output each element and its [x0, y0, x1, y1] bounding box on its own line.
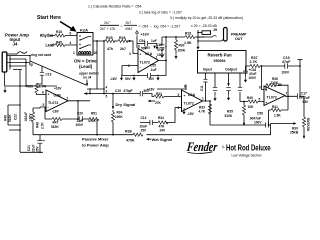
- potentiometer R39 25KB REVERB: [302, 117, 305, 127]
- svg-text:R35: R35: [227, 110, 233, 114]
- resistor R35 510K vertical with ground arrow: [243, 102, 245, 106]
- mixer chain R47 C20 R51: [45, 107, 97, 135]
- wire U1A feedback loop: [122, 37, 166, 76]
- wire wet signal run: [147, 124, 271, 135]
- svg-text:100K: 100K: [115, 115, 123, 119]
- svg-text:to Power Amp: to Power Amp: [82, 143, 109, 148]
- ground C54: [155, 44, 158, 50]
- svg-text:2.) take log of ratio = -1.267: 2.) take log of ratio = -1.267: [139, 11, 182, 15]
- wire K2A output: [93, 41, 138, 54]
- svg-text:Input: Input: [203, 68, 213, 72]
- capacitor C13 47uF 100V: [161, 37, 163, 52]
- wire pan shield riser 2: [239, 73, 241, 102]
- svg-text:510K: 510K: [225, 114, 233, 118]
- jack J4 tip hook: [7, 52, 27, 55]
- power +16V U1A: [136, 31, 139, 37]
- svg-text:100K: 100K: [178, 49, 186, 53]
- capacitor C17 47uF 63V: [297, 94, 300, 100]
- svg-text:100V: 100V: [76, 123, 84, 127]
- svg-text:2.7K: 2.7K: [250, 60, 258, 64]
- svg-text:510K: 510K: [8, 114, 12, 122]
- svg-text:8: 8: [138, 45, 140, 49]
- svg-text:U2B: U2B: [275, 83, 283, 87]
- svg-text:ring not used: ring not used: [31, 53, 51, 57]
- wire reverb return top: [246, 65, 301, 67]
- svg-text:+: +: [140, 53, 142, 57]
- svg-text:Dry Signal: Dry Signal: [116, 102, 136, 107]
- wire C56 bus: [210, 124, 271, 126]
- op-amp U1B: [46, 90, 68, 112]
- svg-text:C22: C22: [14, 114, 18, 120]
- svg-text:+16V: +16V: [54, 87, 62, 91]
- svg-text:7: 7: [286, 91, 288, 95]
- svg-text:Wet Signal: Wet Signal: [152, 137, 172, 142]
- svg-text:J4: J4: [13, 42, 18, 47]
- svg-text:2.7K: 2.7K: [41, 122, 45, 129]
- arrow Start Here pointer: [60, 22, 73, 30]
- svg-text:470K: 470K: [126, 139, 135, 143]
- svg-text:C13: C13: [156, 43, 162, 47]
- svg-text:R37: R37: [251, 56, 258, 60]
- resistor R41 1.5K: [269, 96, 289, 125]
- svg-text:+16V: +16V: [141, 33, 150, 37]
- svg-text:+: +: [165, 45, 167, 49]
- svg-text:REVERB: REVERB: [307, 117, 311, 131]
- svg-text:1: 1: [202, 97, 204, 101]
- svg-text:6: 6: [259, 86, 261, 90]
- svg-text:100V: 100V: [249, 76, 257, 80]
- logo Fender script: [185, 140, 225, 154]
- svg-text:50V: 50V: [145, 46, 152, 50]
- svg-text:−: −: [140, 66, 142, 70]
- svg-text:= .054 → log .054 = -1.267: = .054 → log .054 = -1.267: [139, 25, 181, 29]
- svg-text:C14: C14: [141, 116, 147, 120]
- svg-text:470K: 470K: [88, 119, 96, 123]
- wire bottom bus left: [20, 151, 43, 153]
- svg-text:U1B: U1B: [54, 94, 62, 98]
- svg-text:K2A: K2A: [80, 28, 88, 33]
- svg-text:+: +: [184, 94, 186, 98]
- svg-text:(Lead): (Lead): [79, 64, 93, 69]
- svg-text:R34: R34: [158, 116, 164, 120]
- relay K2A contact lower: [79, 44, 80, 45]
- svg-text:+: +: [48, 93, 50, 97]
- svg-text:TL072: TL072: [48, 101, 58, 105]
- capacitor C16 47uF 100V: [245, 66, 247, 77]
- wire U2A output: [203, 101, 211, 125]
- wire U2A pin2: [175, 107, 182, 109]
- svg-text:2k7: 2k7: [104, 21, 110, 25]
- svg-text:6: 6: [70, 32, 72, 36]
- relay K2A contact upper: [79, 35, 80, 36]
- svg-text:2: 2: [128, 64, 130, 68]
- arrow upper switch pointer: [86, 80, 88, 85]
- svg-text:R18: R18: [56, 30, 62, 34]
- svg-text:-16V: -16V: [52, 110, 60, 114]
- wire U1B pin5 input: [33, 107, 46, 108]
- svg-text:U2A: U2A: [188, 93, 196, 97]
- wire lead to K2A pin4: [51, 44, 77, 46]
- wire K2B drops: [97, 41, 104, 94]
- svg-text:Passive Mixer: Passive Mixer: [82, 137, 109, 142]
- wire right rail: [298, 60, 303, 97]
- svg-text:R50: R50: [27, 85, 34, 89]
- wire pan input riser with capacitor C11: [205, 73, 207, 101]
- svg-text:+16V: +16V: [147, 88, 155, 92]
- svg-text:C19: C19: [115, 89, 121, 93]
- box Reverb Pan: [198, 51, 247, 74]
- svg-text:47uF: 47uF: [282, 60, 291, 64]
- wire jack sleeve to ground bus: [5, 66, 58, 86]
- svg-text:25V: 25V: [141, 129, 148, 133]
- svg-text:ON = Drive: ON = Drive: [74, 59, 97, 64]
- resistor R34 100K vertical: [112, 110, 114, 112]
- svg-text:50V: 50V: [149, 77, 156, 81]
- svg-text:C54: C54: [139, 39, 145, 43]
- wire rhythm to K2A pin6: [50, 35, 77, 37]
- svg-text:63V: 63V: [303, 100, 310, 104]
- svg-text:470pF: 470pF: [123, 89, 132, 93]
- svg-text:2: 2: [178, 106, 180, 110]
- svg-text:U1A: U1A: [145, 52, 153, 56]
- wire R50 to U1B pin6: [37, 93, 47, 95]
- svg-text:050594: 050594: [214, 59, 226, 63]
- svg-text:TL072: TL072: [140, 61, 150, 65]
- capacitor C21 22uF 35V: [39, 135, 41, 153]
- svg-text:R48: R48: [36, 122, 40, 128]
- svg-text:5: 5: [106, 95, 108, 99]
- wire mixer bus: [33, 134, 133, 136]
- svg-text:−: −: [266, 89, 268, 93]
- svg-text:OUT: OUT: [235, 37, 243, 41]
- svg-text:on J4: on J4: [83, 76, 92, 80]
- svg-text:Fender: Fender: [185, 140, 218, 154]
- svg-text:47k: 47k: [107, 47, 113, 51]
- svg-text:1: 1: [73, 51, 75, 55]
- svg-text:C20: C20: [77, 112, 83, 116]
- wire U2B pin6 feedback: [262, 66, 289, 96]
- resistor R30 100K: [175, 37, 177, 40]
- svg-text:1.5K: 1.5K: [184, 41, 192, 45]
- svg-text:R38: R38: [125, 130, 132, 134]
- svg-text:Low Voltage Section: Low Voltage Section: [232, 153, 262, 157]
- svg-text:3: 3: [106, 90, 108, 94]
- node R49 C22 branch: [8, 86, 20, 152]
- svg-text:C56: C56: [257, 112, 263, 116]
- svg-text:C21: C21: [27, 145, 31, 151]
- relay K2B contacts: [84, 93, 140, 95]
- label Wet Signal with arrow: [150, 138, 152, 140]
- svg-text:49k7: 49k7: [125, 27, 133, 31]
- svg-text:−: −: [48, 106, 50, 110]
- svg-text:35V: 35V: [36, 145, 40, 152]
- relay K2A coil: [79, 52, 92, 54]
- wire U2B pin5 input: [240, 101, 264, 103]
- svg-text:-16V: -16V: [187, 112, 195, 116]
- svg-text:TL072: TL072: [267, 96, 277, 100]
- wire pan output riser: [228, 73, 230, 84]
- svg-text:J9: J9: [213, 28, 217, 32]
- svg-text:10K: 10K: [248, 105, 255, 109]
- wire U1B output pin7: [68, 101, 90, 119]
- jack J4 contact ladder: [7, 56, 30, 70]
- svg-text:100V: 100V: [282, 71, 290, 75]
- svg-text:R49: R49: [4, 115, 8, 121]
- svg-text:5: 5: [43, 103, 45, 107]
- svg-text:27K: 27K: [155, 101, 162, 105]
- svg-text:100V: 100V: [254, 121, 262, 125]
- svg-text:2k7 + 47k: 2k7 + 47k: [100, 27, 116, 31]
- wire diagonal tip to relay K2B: [30, 61, 86, 85]
- power -16V U2A: [182, 109, 185, 115]
- svg-text:1.5K: 1.5K: [274, 114, 281, 118]
- ground J9: [196, 44, 199, 50]
- ground jack bus: [3, 87, 6, 93]
- svg-text:1.) Calculate Resistor Ratio =: 1.) Calculate Resistor Ratio = .054: [88, 5, 141, 9]
- svg-text:100V: 100V: [29, 113, 33, 121]
- svg-text:C11: C11: [200, 85, 204, 91]
- svg-text:+: +: [266, 101, 268, 105]
- svg-text:.022uF: .022uF: [24, 112, 28, 122]
- svg-text:5: 5: [259, 98, 261, 102]
- svg-text:7: 7: [67, 97, 69, 101]
- svg-text:24V: 24V: [160, 128, 167, 132]
- svg-text:47uF: 47uF: [157, 48, 164, 52]
- resistor R33 4.7K vertical: [208, 104, 211, 114]
- svg-text:510K: 510K: [51, 125, 59, 129]
- svg-text:C15: C15: [283, 56, 290, 60]
- svg-text:25KB: 25KB: [290, 131, 299, 135]
- wire U1A pin2 input: [122, 65, 138, 67]
- op-amp U2A: [182, 90, 203, 112]
- jack J4 body: [2, 52, 7, 72]
- svg-text:6: 6: [42, 91, 44, 95]
- svg-text:3: 3: [129, 52, 131, 56]
- svg-text:=: =: [121, 25, 123, 29]
- svg-text:4.7K: 4.7K: [199, 110, 206, 114]
- resistor R47 510K: [52, 117, 62, 120]
- svg-text:2.7K: 2.7K: [39, 85, 47, 89]
- wire preamp line: [162, 36, 204, 38]
- svg-text:TL072: TL072: [184, 102, 194, 106]
- svg-text:2k7: 2k7: [120, 47, 126, 51]
- resistor R48 2.7K vertical: [31, 112, 34, 122]
- svg-text:4: 4: [70, 41, 72, 45]
- svg-text:tip: tip: [29, 63, 33, 67]
- svg-text:50V: 50V: [125, 77, 132, 81]
- svg-text:R51: R51: [91, 112, 97, 116]
- op-amp U2B: [264, 86, 285, 106]
- svg-text:Output: Output: [225, 68, 238, 72]
- svg-text:Reverb Pan: Reverb Pan: [208, 53, 232, 58]
- wire U2B output: [285, 96, 304, 117]
- svg-text:C19: C19: [46, 73, 52, 77]
- wire pan shield riser 1: [214, 73, 216, 95]
- svg-text:-16V: -16V: [110, 77, 118, 81]
- svg-text:Start Here: Start Here: [37, 15, 61, 21]
- svg-text:Hot Rod Deluxe: Hot Rod Deluxe: [226, 145, 271, 153]
- svg-text:2k7: 2k7: [126, 21, 132, 25]
- svg-text:3.) multiply by 20 to get -25.: 3.) multiply by 20 to get -25.33 dB (att…: [170, 16, 243, 20]
- svg-text:+: +: [43, 139, 45, 143]
- dry signal tap: [112, 94, 114, 107]
- svg-text:.1uF: .1uF: [150, 68, 157, 72]
